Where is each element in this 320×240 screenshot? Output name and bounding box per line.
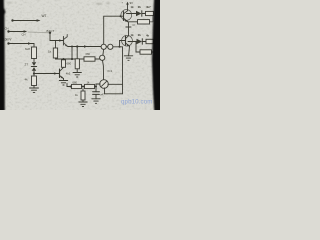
resistor R6 — [72, 84, 82, 88]
resistor R2 — [32, 76, 37, 86]
wire long drop to meter loop — [122, 47, 124, 94]
svg-text:4k5: 4k5 — [66, 72, 71, 76]
wire — [33, 86, 35, 89]
wire to Q2 base — [34, 73, 60, 75]
node — [76, 45, 78, 47]
svg-text:1k: 1k — [131, 5, 135, 9]
wire rail2 — [68, 46, 101, 48]
resistor R3 — [55, 41, 57, 49]
left page border — [0, 0, 5, 114]
svg-text:1k: 1k — [48, 49, 52, 53]
base wires — [120, 41, 126, 47]
wire meter to cap node — [96, 84, 100, 87]
wire rail4 — [67, 86, 96, 88]
node — [82, 86, 84, 88]
input arrow 3 — [7, 42, 34, 44]
node — [71, 58, 73, 60]
transistor Q4 envelope — [122, 35, 133, 46]
supply tick 2 — [126, 26, 131, 28]
connector circles K1 — [101, 44, 106, 49]
wire riser up to Q3 — [104, 16, 121, 44]
wire between — [106, 46, 107, 48]
svg-text:4k: 4k — [146, 34, 150, 38]
resistor R9 — [146, 11, 154, 15]
svg-text:2k: 2k — [138, 33, 142, 37]
input arrow 2 — [7, 30, 27, 32]
svg-text:CH: CH — [5, 26, 9, 30]
faint smudges top — [7, 2, 110, 4]
wire to diode D1 — [127, 13, 137, 15]
meter M1 — [100, 80, 109, 89]
transistor Q4 — [126, 36, 130, 47]
ground — [124, 56, 132, 61]
capacitor C1 6u8 — [32, 47, 37, 59]
svg-text:ZT: ZT — [25, 62, 29, 66]
meter loop wires — [108, 83, 123, 85]
ground — [30, 88, 39, 92]
svg-text:1F: 1F — [132, 24, 135, 27]
input arrow top — [11, 19, 40, 22]
resistor R13 — [84, 57, 95, 61]
zener Z1 — [31, 62, 36, 70]
transistor Q2 — [60, 67, 64, 78]
ground — [59, 81, 67, 86]
wire connector link — [102, 49, 105, 55]
node — [70, 86, 72, 88]
wire drop — [71, 47, 73, 60]
svg-text:qpb10.com: qpb10.com — [121, 99, 153, 106]
wire — [63, 79, 65, 81]
svg-text:WT: WT — [42, 14, 47, 18]
transistor Q3 — [124, 5, 128, 23]
wire emitter row — [128, 21, 138, 23]
resistor R8 — [82, 89, 84, 91]
svg-text:IC1: IC1 — [108, 69, 113, 73]
resistor R11 — [146, 39, 154, 43]
wire faint — [28, 31, 50, 34]
wire drop — [49, 33, 51, 41]
node junction — [33, 72, 35, 74]
node — [49, 32, 51, 34]
resistor R5 — [76, 47, 78, 59]
svg-text:2k: 2k — [138, 5, 142, 9]
diode D2 — [137, 39, 143, 44]
emitter down to ground — [128, 46, 131, 56]
node — [95, 86, 97, 88]
diode D1 — [136, 11, 142, 16]
resistor R7 — [85, 84, 95, 88]
wire — [33, 44, 35, 48]
node — [119, 46, 121, 48]
wire right — [113, 46, 123, 48]
wire — [33, 71, 35, 76]
svg-text:4k: 4k — [25, 77, 29, 81]
capacitor C2 — [95, 87, 97, 92]
ground — [79, 102, 87, 107]
paper background — [0, 0, 160, 110]
ground — [73, 73, 81, 78]
node — [120, 15, 122, 17]
resistor R4 — [63, 58, 65, 61]
resistor R10 — [138, 20, 150, 24]
svg-text:680: 680 — [73, 81, 78, 85]
wire — [33, 59, 35, 62]
svg-text:680: 680 — [86, 52, 91, 56]
node — [71, 46, 73, 48]
svg-text:CH: CH — [22, 33, 26, 37]
wire to diode D2 — [128, 41, 137, 43]
wire rail3 — [56, 58, 100, 59]
svg-text:1k: 1k — [131, 33, 135, 37]
resistor R12 — [136, 42, 140, 53]
right page border — [152, 0, 164, 114]
supply arrow +9V — [126, 2, 129, 5]
node — [63, 58, 65, 60]
wire riser down to meter — [103, 60, 104, 79]
wire to Q1 base — [50, 40, 64, 42]
transistor Q3 envelope — [121, 10, 132, 21]
connector circle K2 — [100, 55, 105, 60]
transistor Q1 — [64, 35, 68, 47]
svg-text:6u8: 6u8 — [25, 47, 30, 51]
svg-text:4k7: 4k7 — [146, 5, 151, 9]
svg-text:680: 680 — [67, 61, 72, 65]
ground — [92, 99, 100, 104]
